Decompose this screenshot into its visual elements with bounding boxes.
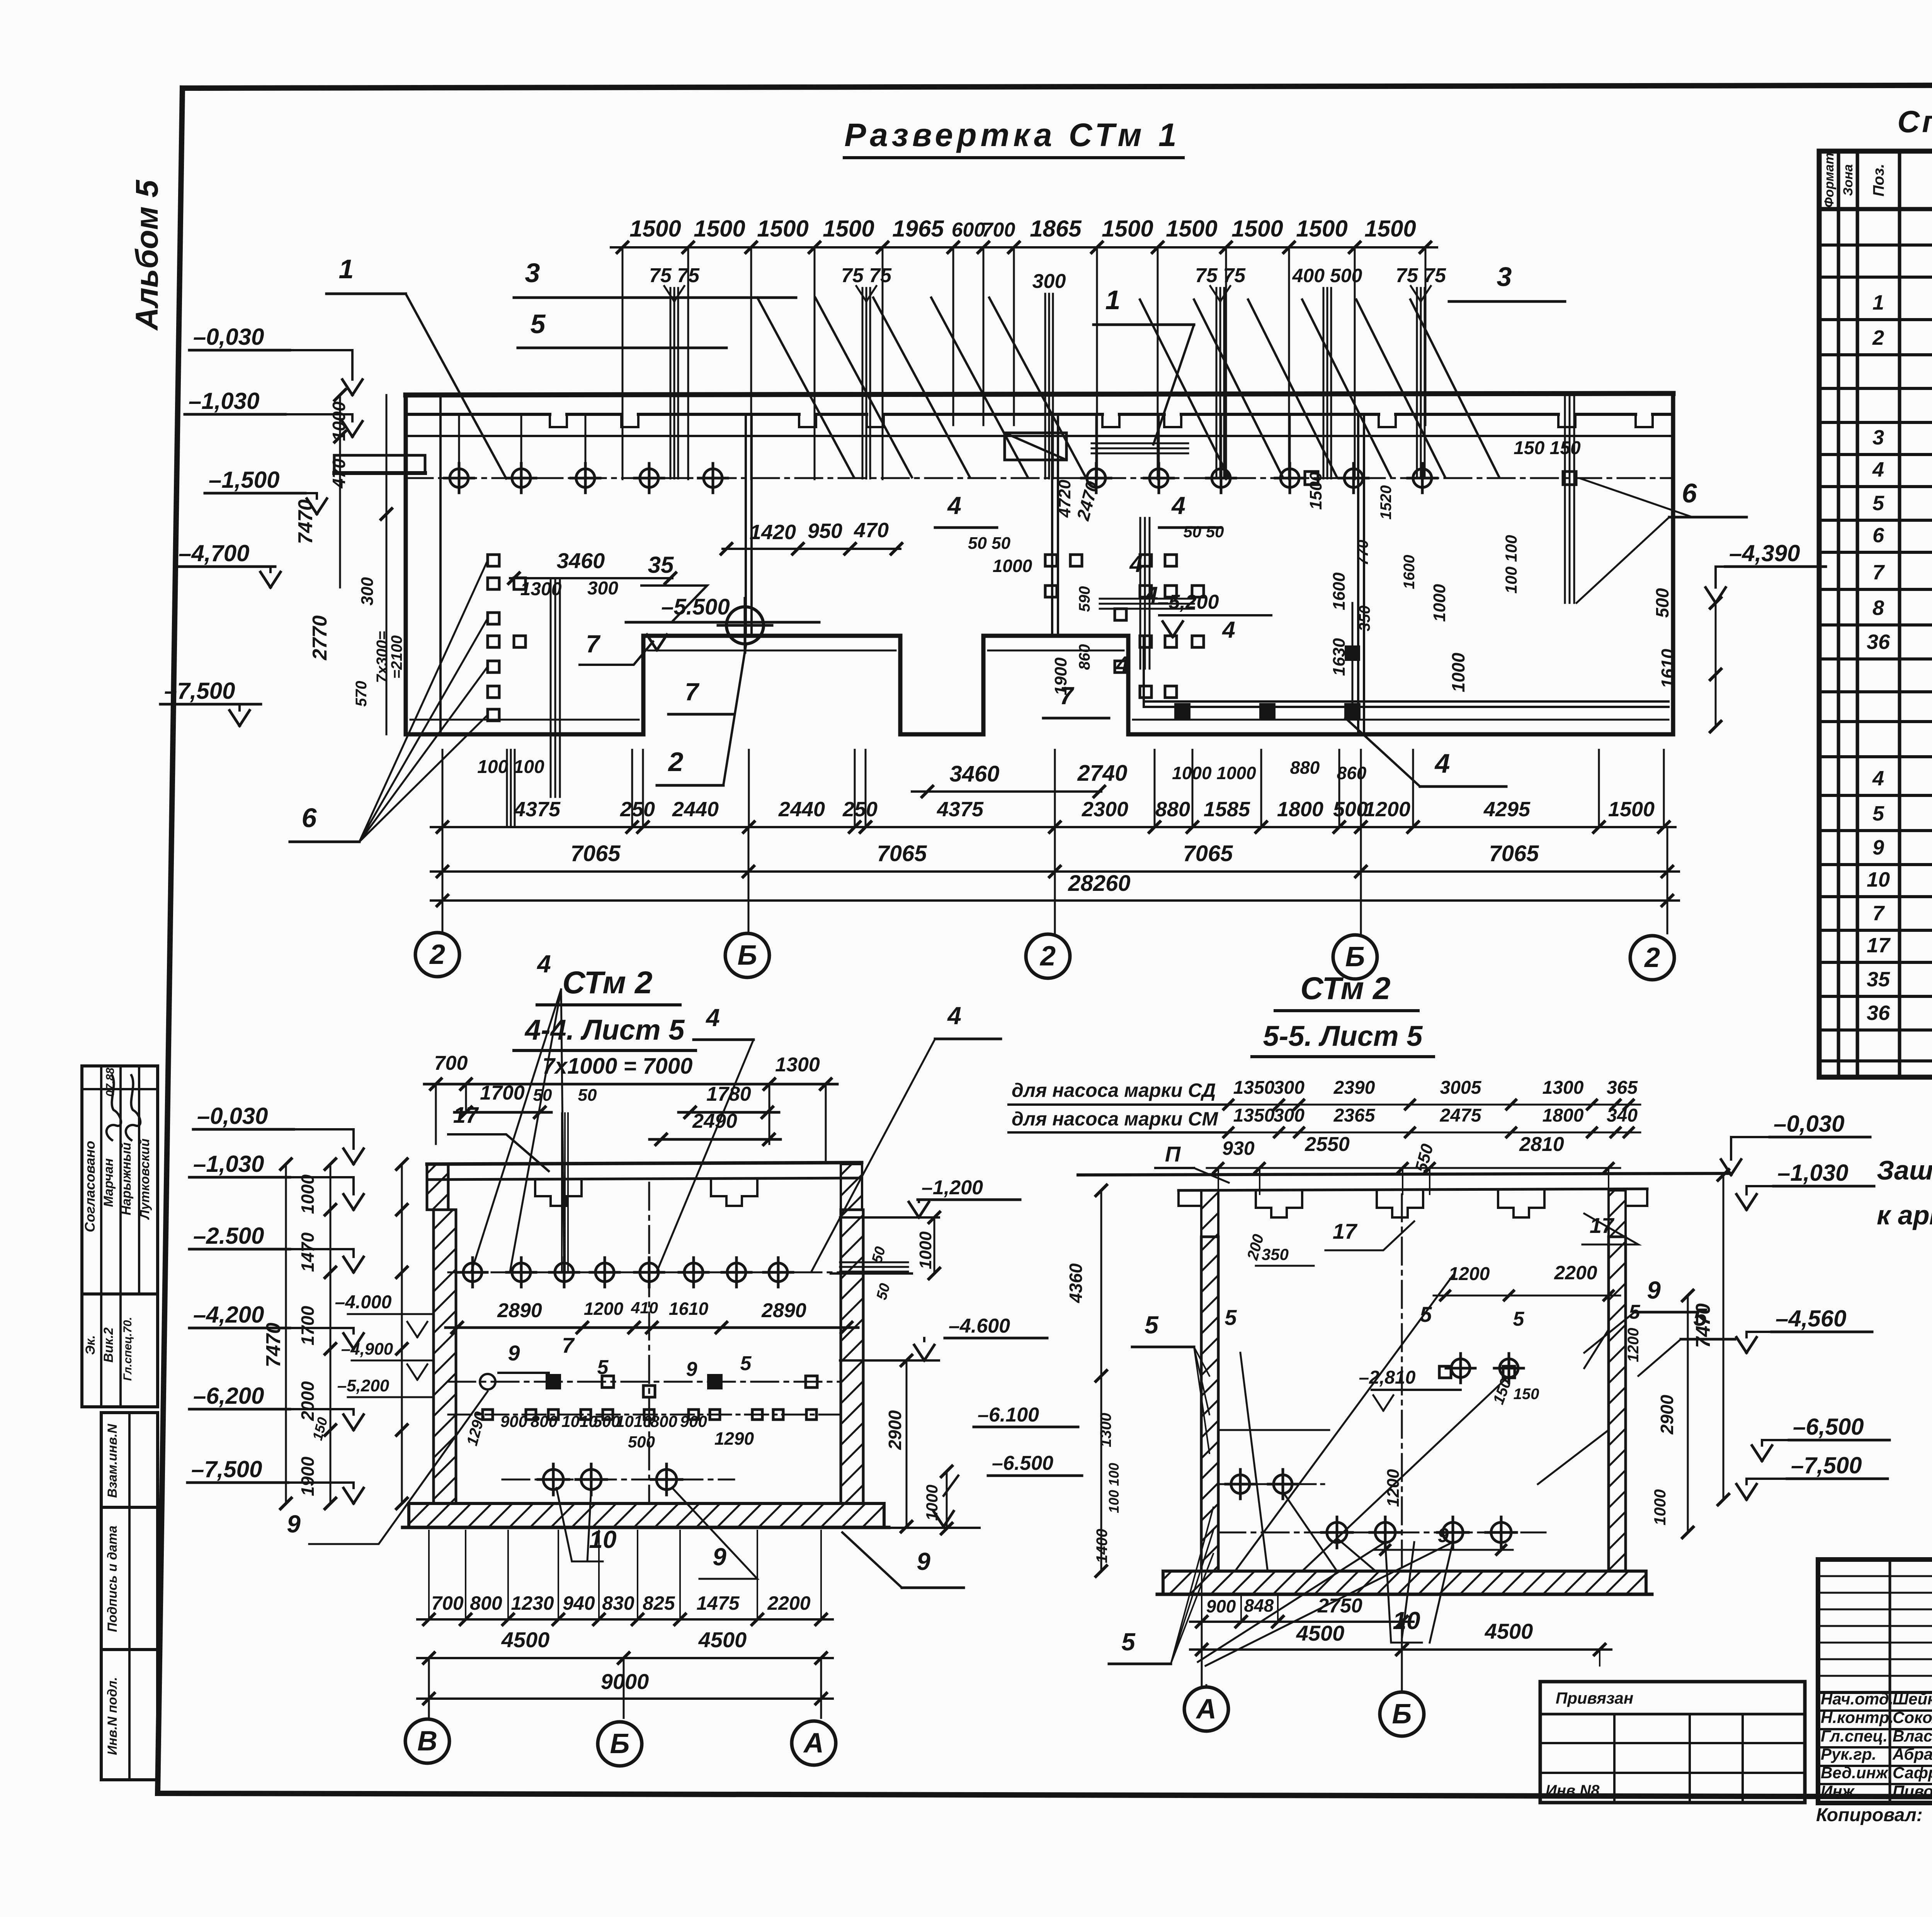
svg-text:1520: 1520: [1378, 485, 1395, 520]
svg-text:2770: 2770: [309, 615, 331, 661]
svg-text:5: 5: [531, 309, 546, 339]
svg-text:Гл.спец.: Гл.спец.: [1821, 1727, 1888, 1745]
svg-text:830: 830: [602, 1592, 634, 1614]
svg-text:250: 250: [620, 798, 655, 821]
svg-text:35: 35: [1867, 968, 1890, 991]
svg-text:Б: Б: [1345, 941, 1365, 972]
svg-text:470: 470: [329, 458, 349, 489]
svg-text:Подпись и дата: Подпись и дата: [105, 1525, 120, 1632]
drawing 3 section outline: [1078, 1173, 1731, 1594]
svg-text:Пивоварова: Пивоварова: [1893, 1782, 1932, 1800]
svg-text:4: 4: [1872, 767, 1884, 790]
svg-text:7065: 7065: [877, 841, 927, 866]
svg-text:4500: 4500: [501, 1628, 550, 1652]
svg-text:1780: 1780: [706, 1083, 751, 1105]
svg-text:75 75: 75 75: [649, 264, 700, 287]
svg-text:7: 7: [1872, 902, 1885, 925]
footer annotations: [1816, 1802, 1932, 1830]
svg-text:1000: 1000: [923, 1485, 941, 1520]
note about welded embedded items: [1877, 1155, 1932, 1230]
svg-text:4: 4: [1116, 652, 1129, 678]
drawing 1 left vertical dimension chain: [294, 390, 405, 734]
svg-text:1610: 1610: [669, 1299, 709, 1319]
svg-text:3: 3: [1497, 262, 1512, 292]
title block outer frame: [1818, 1559, 1932, 1803]
drawing 1 centerline with anchors: [406, 463, 1673, 493]
drawing 2 title СТм2 4-4 лист5: [514, 965, 696, 1050]
svg-text:1300: 1300: [1543, 1078, 1584, 1098]
svg-text:700: 700: [434, 1052, 468, 1074]
svg-text:Гл.спец.70.: Гл.спец.70.: [121, 1317, 134, 1381]
svg-text:П: П: [1165, 1142, 1181, 1166]
svg-text:75 75: 75 75: [1396, 264, 1446, 287]
svg-text:2900: 2900: [885, 1410, 905, 1450]
svg-text:2: 2: [668, 747, 684, 777]
svg-text:–6.500: –6.500: [992, 1452, 1053, 1474]
svg-text:28260: 28260: [1068, 871, 1130, 896]
svg-text:10: 10: [589, 1525, 616, 1553]
svg-text:1420: 1420: [750, 521, 796, 544]
svg-text:Сафрончик: Сафрончик: [1893, 1764, 1932, 1782]
drawing 2 left elevation flags: [187, 1103, 364, 1503]
drawing 1 bottom dimension row 1: [431, 750, 1675, 833]
svg-text:900: 900: [680, 1412, 707, 1430]
svg-text:1000 1000: 1000 1000: [1172, 763, 1256, 783]
svg-text:4720: 4720: [1055, 480, 1074, 518]
svg-text:4360: 4360: [1066, 1263, 1086, 1303]
svg-text:Вик.2: Вик.2: [101, 1327, 116, 1362]
svg-text:Шейко: Шейко: [1893, 1690, 1932, 1708]
svg-text:2490: 2490: [692, 1110, 737, 1132]
left stamp table lower (Взам.инв / Подпись / Инв): [101, 1413, 158, 1780]
svg-text:36: 36: [1867, 630, 1890, 654]
svg-text:2300: 2300: [1082, 798, 1128, 821]
svg-text:1470: 1470: [298, 1232, 318, 1272]
svg-text:1400: 1400: [1094, 1529, 1111, 1563]
svg-text:4375: 4375: [514, 798, 561, 821]
svg-text:2365: 2365: [1333, 1105, 1376, 1126]
svg-text:1200: 1200: [1364, 798, 1410, 821]
svg-text:1200: 1200: [1625, 1328, 1642, 1362]
svg-text:1500: 1500: [1166, 216, 1217, 242]
svg-text:для насоса марки СМ: для насоса марки СМ: [1012, 1108, 1218, 1130]
drawing 2 top dimension rows: [424, 950, 1001, 1272]
svg-text:5: 5: [1145, 1311, 1159, 1339]
svg-text:Б: Б: [610, 1728, 630, 1759]
svg-text:770: 770: [1354, 540, 1371, 566]
svg-text:1500: 1500: [757, 216, 808, 242]
svg-text:500: 500: [1652, 588, 1672, 618]
svg-text:800: 800: [470, 1592, 502, 1614]
svg-text:Марчан: Марчан: [101, 1158, 116, 1207]
svg-text:825: 825: [643, 1592, 675, 1614]
drawing 1 interior small parts: [334, 395, 1668, 797]
svg-text:2750: 2750: [1317, 1595, 1362, 1617]
svg-text:–4,700: –4,700: [179, 540, 250, 566]
svg-text:Эк.: Эк.: [83, 1335, 98, 1355]
svg-text:2200: 2200: [767, 1592, 810, 1614]
svg-text:2000: 2000: [298, 1381, 318, 1421]
svg-text:250: 250: [842, 798, 878, 821]
svg-text:4: 4: [1222, 617, 1235, 643]
svg-text:1350: 1350: [1233, 1105, 1275, 1126]
svg-text:2900: 2900: [1657, 1394, 1677, 1435]
svg-text:900: 900: [1206, 1596, 1236, 1616]
svg-text:4375: 4375: [937, 798, 984, 821]
svg-text:Альбом 5: Альбом 5: [129, 179, 165, 331]
svg-text:2440: 2440: [672, 798, 719, 821]
svg-text:1500: 1500: [1608, 798, 1655, 821]
drawing 1 top dimension row: [611, 216, 1437, 479]
svg-text:Инж.: Инж.: [1821, 1782, 1859, 1800]
svg-text:9: 9: [686, 1358, 697, 1381]
svg-text:1200: 1200: [1449, 1264, 1490, 1284]
drawing 2 right side elevation flags: [831, 1176, 1082, 1588]
svg-text:5: 5: [1872, 802, 1884, 825]
svg-text:4500: 4500: [1485, 1619, 1533, 1643]
svg-text:1010: 1010: [561, 1412, 597, 1430]
svg-text:Взам.инв.N: Взам.инв.N: [105, 1423, 120, 1498]
svg-text:1600: 1600: [1330, 572, 1349, 610]
svg-text:В: В: [417, 1726, 437, 1757]
svg-text:940: 940: [563, 1592, 595, 1614]
svg-text:3005: 3005: [1440, 1078, 1482, 1098]
svg-text:Заштрихованые закладные изде: Заштрихованые закладные изделия приварит…: [1877, 1155, 1932, 1185]
svg-text:570: 570: [353, 681, 370, 707]
attachment sub-table (Привязан): [1540, 1682, 1805, 1803]
svg-text:1500: 1500: [629, 216, 681, 242]
svg-text:Нарыжный: Нарыжный: [119, 1142, 134, 1215]
drawing 2 section outline: [403, 1163, 889, 1527]
svg-text:–5,200: –5,200: [337, 1376, 389, 1395]
spec table headers: [1822, 153, 1932, 208]
svg-text:СТм 2: СТм 2: [1300, 971, 1390, 1006]
svg-text:6: 6: [1682, 478, 1697, 508]
svg-text:1800: 1800: [1277, 798, 1323, 821]
drawing 1 bottom dimension row 3 (28260): [431, 871, 1679, 933]
svg-text:Спецификация СТм1, СТм2 (начал: Спецификация СТм1, СТм2 (начало): [1897, 104, 1932, 139]
svg-text:2475: 2475: [1440, 1105, 1482, 1126]
svg-text:1000: 1000: [1430, 584, 1449, 622]
svg-text:–7,500: –7,500: [1791, 1452, 1862, 1478]
svg-text:для насоса марки СД: для насоса марки СД: [1012, 1079, 1216, 1101]
svg-text:50 50: 50 50: [1183, 523, 1224, 541]
svg-text:Развертка СТм 1: Развертка СТм 1: [844, 117, 1180, 153]
svg-text:300: 300: [1274, 1078, 1304, 1098]
drawing 3 interior labels and leaders: [1109, 1213, 1735, 1666]
svg-text:1610: 1610: [1658, 649, 1678, 688]
svg-text:1585: 1585: [1204, 798, 1250, 821]
svg-text:9: 9: [1872, 836, 1884, 859]
svg-text:1: 1: [1105, 285, 1121, 315]
svg-text:Н.контр.: Н.контр.: [1821, 1708, 1894, 1726]
svg-text:9000: 9000: [601, 1669, 649, 1694]
svg-text:900: 900: [500, 1412, 527, 1430]
drawing 1 left elevation flags: [160, 324, 362, 726]
svg-text:150: 150: [1514, 1386, 1539, 1403]
svg-text:36: 36: [1867, 1001, 1890, 1025]
svg-text:590: 590: [1076, 586, 1093, 612]
svg-text:–2,810: –2,810: [1359, 1367, 1416, 1388]
svg-text:4: 4: [947, 492, 961, 519]
drawing 3 left vertical dims: [1066, 1185, 1122, 1577]
drawing 2 interior anchors row: [448, 1183, 841, 1503]
svg-text:5: 5: [740, 1352, 752, 1375]
svg-text:17: 17: [1590, 1213, 1615, 1238]
svg-text:1965: 1965: [892, 216, 944, 242]
svg-text:1290: 1290: [714, 1428, 754, 1449]
svg-text:410: 410: [631, 1299, 658, 1317]
svg-text:СТм 2: СТм 2: [562, 965, 652, 1000]
svg-text:1000: 1000: [1448, 652, 1468, 692]
svg-text:700: 700: [431, 1592, 464, 1614]
svg-text:2: 2: [1644, 942, 1660, 973]
svg-text:1900: 1900: [1051, 657, 1070, 695]
svg-text:800: 800: [531, 1412, 558, 1430]
svg-text:1000: 1000: [298, 1174, 318, 1214]
svg-text:1700: 1700: [480, 1082, 525, 1104]
svg-text:7065: 7065: [570, 841, 621, 866]
svg-text:1: 1: [1872, 291, 1884, 314]
svg-text:Вед.инж.: Вед.инж.: [1821, 1764, 1892, 1782]
svg-text:1000: 1000: [329, 401, 349, 441]
svg-text:7470: 7470: [262, 1323, 285, 1367]
drawing 2 axis bubbles В Б А: [405, 1719, 836, 1766]
svg-text:–1,200: –1,200: [922, 1176, 983, 1199]
svg-text:9: 9: [287, 1510, 301, 1538]
drawing 1 leader fan left (item 3-5): [757, 298, 1086, 477]
svg-text:2740: 2740: [1077, 761, 1127, 786]
svg-text:Б: Б: [1392, 1699, 1412, 1730]
svg-text:1800: 1800: [1543, 1105, 1584, 1126]
svg-text:365: 365: [1607, 1078, 1638, 1098]
svg-text:880: 880: [1155, 798, 1190, 821]
svg-text:860: 860: [1337, 763, 1367, 783]
svg-text:2890: 2890: [497, 1299, 542, 1322]
svg-text:7х1000 = 7000: 7х1000 = 7000: [543, 1054, 693, 1079]
svg-text:А: А: [803, 1728, 824, 1759]
drawing 2 mid dimension row 2890-1200-410-1610-2890: [446, 1299, 858, 1333]
svg-text:1230: 1230: [511, 1592, 554, 1614]
svg-text:Привязан: Привязан: [1556, 1689, 1633, 1707]
svg-text:4500: 4500: [1296, 1621, 1345, 1645]
svg-text:1: 1: [339, 254, 354, 284]
svg-text:–1,500: –1,500: [209, 467, 280, 493]
svg-text:4: 4: [1129, 551, 1142, 577]
svg-text:100 100: 100 100: [1502, 535, 1520, 594]
svg-text:1900: 1900: [298, 1456, 318, 1496]
svg-text:–7,500: –7,500: [164, 678, 235, 704]
svg-text:1350: 1350: [1233, 1078, 1275, 1098]
svg-text:1200: 1200: [584, 1299, 624, 1319]
svg-text:7: 7: [586, 630, 601, 658]
svg-text:1500: 1500: [1231, 216, 1283, 242]
svg-text:860: 860: [1076, 644, 1093, 670]
svg-text:7065: 7065: [1183, 841, 1233, 866]
drawing 3 axis centerline: [1401, 1194, 1403, 1571]
svg-text:к арматуре стен.: к арматуре стен.: [1877, 1200, 1932, 1230]
svg-text:4295: 4295: [1483, 798, 1531, 821]
svg-text:10: 10: [1867, 868, 1890, 891]
svg-text:2550: 2550: [1304, 1133, 1350, 1156]
drawing 2 left vertical dimension chain: [262, 1159, 433, 1509]
svg-text:1475: 1475: [696, 1592, 740, 1614]
svg-text:1500: 1500: [694, 216, 745, 242]
svg-text:500: 500: [628, 1433, 655, 1451]
svg-text:300: 300: [587, 578, 618, 599]
svg-text:50: 50: [578, 1086, 597, 1105]
svg-text:1500: 1500: [1296, 216, 1347, 242]
svg-text:350: 350: [1262, 1245, 1289, 1263]
svg-text:5: 5: [1872, 492, 1884, 515]
svg-text:–5,200: –5,200: [1157, 591, 1219, 613]
svg-text:300: 300: [1274, 1105, 1304, 1126]
title block signature grid: [1818, 1559, 1932, 1803]
left stamp table middle (Вик.2): [82, 1294, 158, 1407]
svg-text:1700: 1700: [298, 1306, 318, 1345]
drawing 3 pump mark dimension rows: [1009, 1078, 1640, 1137]
svg-text:4: 4: [536, 950, 551, 978]
svg-text:–1,030: –1,030: [1777, 1160, 1849, 1186]
svg-text:150 150: 150 150: [1514, 438, 1581, 458]
svg-text:Согласовано: Согласовано: [82, 1141, 98, 1233]
svg-text:9: 9: [1647, 1276, 1661, 1304]
drawing 3 upper dimension row 930 2550 2810: [1155, 1133, 1620, 1194]
svg-text:–7,500: –7,500: [191, 1456, 262, 1482]
drawing 3 bottom dimension rows: [1190, 1532, 1611, 1690]
drawing 1 sub dimension labels above bottom rows: [477, 472, 1449, 826]
svg-text:–4.000: –4.000: [335, 1292, 392, 1313]
svg-text:=2100: =2100: [388, 635, 405, 679]
svg-text:Рук.гр.: Рук.гр.: [1821, 1745, 1876, 1763]
svg-text:7: 7: [685, 678, 700, 706]
svg-text:1500: 1500: [1364, 216, 1416, 242]
svg-text:7470: 7470: [1692, 1303, 1714, 1348]
svg-text:848: 848: [1244, 1595, 1274, 1616]
svg-text:Инв.N подл.: Инв.N подл.: [105, 1677, 120, 1755]
spec table title: [1897, 104, 1932, 139]
svg-text:–1,030: –1,030: [193, 1151, 264, 1177]
svg-text:6: 6: [302, 803, 317, 833]
svg-text:35: 35: [648, 552, 674, 578]
svg-text:Копировал:: Копировал:: [1816, 1805, 1923, 1825]
drawing 2 bottom anchor circles: [287, 1391, 757, 1579]
svg-text:4: 4: [1872, 458, 1884, 481]
svg-text:1300: 1300: [775, 1054, 820, 1076]
svg-text:1865: 1865: [1030, 216, 1082, 242]
drawing 3 title СТм2 5-5 Лист5: [1252, 971, 1434, 1057]
svg-text:Власенко: Власенко: [1893, 1727, 1932, 1745]
svg-text:1300: 1300: [1097, 1413, 1114, 1447]
svg-text:950: 950: [808, 519, 842, 543]
svg-text:1600: 1600: [1401, 555, 1418, 589]
svg-text:1500: 1500: [823, 216, 874, 242]
svg-text:600: 600: [952, 219, 985, 241]
svg-text:–6.100: –6.100: [978, 1404, 1039, 1426]
svg-text:8: 8: [1872, 596, 1884, 620]
svg-text:4500: 4500: [698, 1628, 747, 1652]
svg-text:17: 17: [453, 1103, 479, 1128]
svg-text:1500: 1500: [1102, 216, 1153, 242]
svg-text:5: 5: [1225, 1305, 1237, 1330]
svg-text:–4,900: –4,900: [341, 1340, 393, 1359]
drawing 1 right side labels: [1346, 478, 1826, 732]
svg-text:1300: 1300: [520, 579, 562, 599]
svg-text:75 75: 75 75: [841, 264, 892, 287]
svg-text:Сокольская: Сокольская: [1893, 1708, 1932, 1726]
svg-text:2890: 2890: [761, 1299, 806, 1322]
svg-text:–2.500: –2.500: [193, 1223, 264, 1249]
drawing 1 title Развертка СТм 1: [844, 117, 1183, 158]
svg-text:9: 9: [1438, 1524, 1449, 1547]
svg-text:9: 9: [917, 1548, 930, 1575]
svg-text:А: А: [1196, 1694, 1216, 1725]
svg-text:Б: Б: [738, 940, 757, 971]
svg-text:2200: 2200: [1554, 1262, 1597, 1284]
svg-text:5: 5: [1513, 1308, 1525, 1330]
drawing 1 leader fan right: [1140, 300, 1499, 477]
svg-text:1000: 1000: [916, 1231, 935, 1269]
svg-text:50 50: 50 50: [968, 534, 1011, 553]
drawing 2 interior second row and squares: [448, 1333, 841, 1451]
svg-text:2: 2: [429, 939, 445, 970]
svg-text:3460: 3460: [557, 548, 605, 573]
svg-text:4: 4: [1434, 748, 1450, 778]
svg-text:Инв.N8: Инв.N8: [1546, 1782, 1600, 1799]
svg-text:700: 700: [982, 219, 1015, 241]
svg-text:17: 17: [1333, 1219, 1358, 1243]
svg-text:5: 5: [1121, 1628, 1136, 1656]
svg-text:Зона: Зона: [1841, 164, 1855, 196]
svg-text:2810: 2810: [1519, 1133, 1564, 1156]
spec table frame and grid: [1819, 151, 1932, 1077]
svg-text:3: 3: [1872, 426, 1884, 449]
svg-text:4: 4: [1145, 582, 1158, 608]
svg-text:7470: 7470: [294, 499, 317, 544]
svg-text:3: 3: [525, 258, 540, 288]
svg-text:2: 2: [1872, 326, 1884, 349]
svg-text:2: 2: [1039, 941, 1056, 972]
svg-text:1010: 1010: [616, 1412, 651, 1430]
svg-text:3460: 3460: [949, 761, 999, 787]
svg-text:–4,390: –4,390: [1729, 540, 1800, 566]
svg-text:9: 9: [713, 1543, 726, 1571]
svg-text:9: 9: [508, 1341, 520, 1365]
svg-text:800: 800: [650, 1412, 677, 1430]
svg-text:6: 6: [1872, 524, 1884, 547]
svg-text:Нач.отд.: Нач.отд.: [1821, 1690, 1893, 1708]
svg-text:470: 470: [854, 519, 889, 542]
drawing 1 embedded part bundles 75-75: [649, 264, 1446, 478]
svg-text:4: 4: [947, 1002, 961, 1030]
svg-text:500: 500: [1333, 798, 1368, 821]
svg-text:75 75: 75 75: [1195, 264, 1246, 287]
svg-text:17: 17: [1867, 934, 1891, 957]
svg-text:2390: 2390: [1333, 1078, 1375, 1098]
svg-text:Лутковский: Лутковский: [138, 1139, 152, 1221]
drawing 1 leader fan bottom-left (item 6): [290, 560, 488, 842]
drawing 3 axis bubbles А Б: [1184, 1685, 1424, 1736]
drawing 1 wall development outline: [406, 393, 1673, 734]
svg-text:7: 7: [562, 1333, 575, 1357]
svg-text:4: 4: [705, 1004, 720, 1032]
svg-text:400 500: 400 500: [1292, 265, 1362, 286]
svg-text:1000: 1000: [993, 556, 1032, 576]
album label Альбом 5: [129, 179, 165, 331]
left stamp table upper (Согласовано): [82, 1066, 158, 1294]
svg-text:930: 930: [1222, 1137, 1255, 1159]
svg-text:2440: 2440: [778, 798, 825, 821]
